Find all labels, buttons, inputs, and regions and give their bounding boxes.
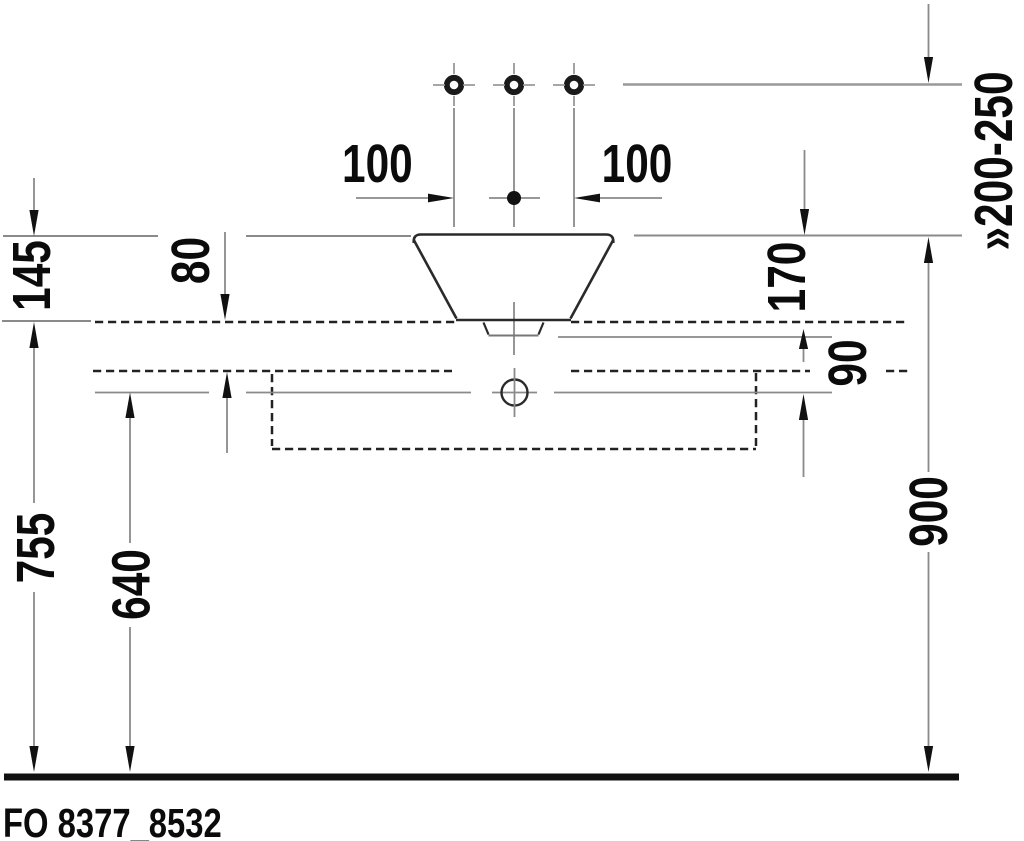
drain axis line segment d xyxy=(554,392,832,394)
dimension 640 top arrow xyxy=(125,393,134,544)
fixing hole left xyxy=(433,63,475,106)
drain right side xyxy=(539,323,544,335)
drain axis line segment c xyxy=(492,392,537,394)
dimension 100 left label xyxy=(342,134,413,194)
extension line from right hole xyxy=(573,108,575,227)
svg-text:640: 640 xyxy=(102,549,162,620)
svg-text:90: 90 xyxy=(818,339,878,386)
rim reference line middle xyxy=(246,235,411,237)
fixing hole center xyxy=(493,63,535,106)
extension line from left hole xyxy=(453,108,455,227)
dimension 145 upper arrow xyxy=(29,178,38,236)
lower dashed line left part xyxy=(93,370,452,373)
svg-text:100: 100 xyxy=(342,134,413,194)
lower dashed line middle part xyxy=(571,370,810,373)
dimension 755 bottom arrow xyxy=(29,592,38,772)
dimension 170 label xyxy=(757,242,817,313)
dimension 640 label xyxy=(102,549,162,620)
wall distance arrow top xyxy=(924,4,933,83)
cabinet dashed bottom edge xyxy=(272,448,756,451)
dimension 100 left arrow xyxy=(356,194,454,203)
dimension 100 right arrow xyxy=(574,194,662,203)
svg-text:145: 145 xyxy=(2,240,62,311)
basin rim xyxy=(414,235,614,244)
svg-text:755: 755 xyxy=(6,513,66,584)
dimension 640 bottom arrow xyxy=(125,627,134,772)
drain axis line segment b xyxy=(246,392,471,394)
rim reference line left xyxy=(3,235,158,237)
floor line xyxy=(4,774,959,781)
dimension 900 bottom arrow xyxy=(924,552,933,772)
drain axis line segment a xyxy=(95,392,209,394)
dimension 80 label xyxy=(161,237,221,284)
dimension 755 top arrow xyxy=(29,322,38,503)
dimension 145 label xyxy=(2,240,62,311)
dimension 90 lower arrow xyxy=(799,394,808,477)
rim reference line right xyxy=(634,235,962,237)
countertop solid stub left xyxy=(2,320,91,322)
lower dashed line right part xyxy=(886,370,908,373)
fixing hole right xyxy=(553,63,595,106)
svg-text:900: 900 xyxy=(899,476,959,547)
dimension 755 label xyxy=(6,513,66,584)
cabinet dashed right edge xyxy=(755,373,758,446)
countertop dashed line right part xyxy=(571,321,908,324)
svg-text:FO 8377_8532: FO 8377_8532 xyxy=(3,799,222,841)
cabinet dashed left edge xyxy=(271,374,274,446)
svg-text:»200-250: »200-250 xyxy=(964,71,1024,250)
dimension 80 lower arrow up xyxy=(222,372,231,453)
center reference dot xyxy=(489,191,540,205)
svg-text:100: 100 xyxy=(602,134,673,194)
drain bottom extension line xyxy=(558,336,832,338)
drain outlet circle xyxy=(502,368,528,417)
drain bottom xyxy=(489,335,539,337)
drawing number label xyxy=(3,799,222,841)
basin right side xyxy=(571,240,614,319)
top right line at hole level xyxy=(623,83,962,86)
label 200-250 xyxy=(964,71,1024,250)
svg-text:80: 80 xyxy=(161,237,221,284)
dimension 900 label xyxy=(899,476,959,547)
dimension 80 arrow down xyxy=(220,232,229,320)
dimension 170 lower arrow xyxy=(799,329,808,362)
drain left side xyxy=(484,323,489,335)
dimension 900 top arrow xyxy=(924,237,933,472)
centerline from center hole xyxy=(513,108,515,355)
basin bottom xyxy=(456,319,571,322)
basin left side xyxy=(414,240,457,319)
countertop dashed line left part xyxy=(95,321,456,324)
svg-text:170: 170 xyxy=(757,242,817,313)
dimension 90 label xyxy=(818,339,878,386)
dimension 170 upper arrow xyxy=(800,150,809,235)
dimension 100 right label xyxy=(602,134,673,194)
